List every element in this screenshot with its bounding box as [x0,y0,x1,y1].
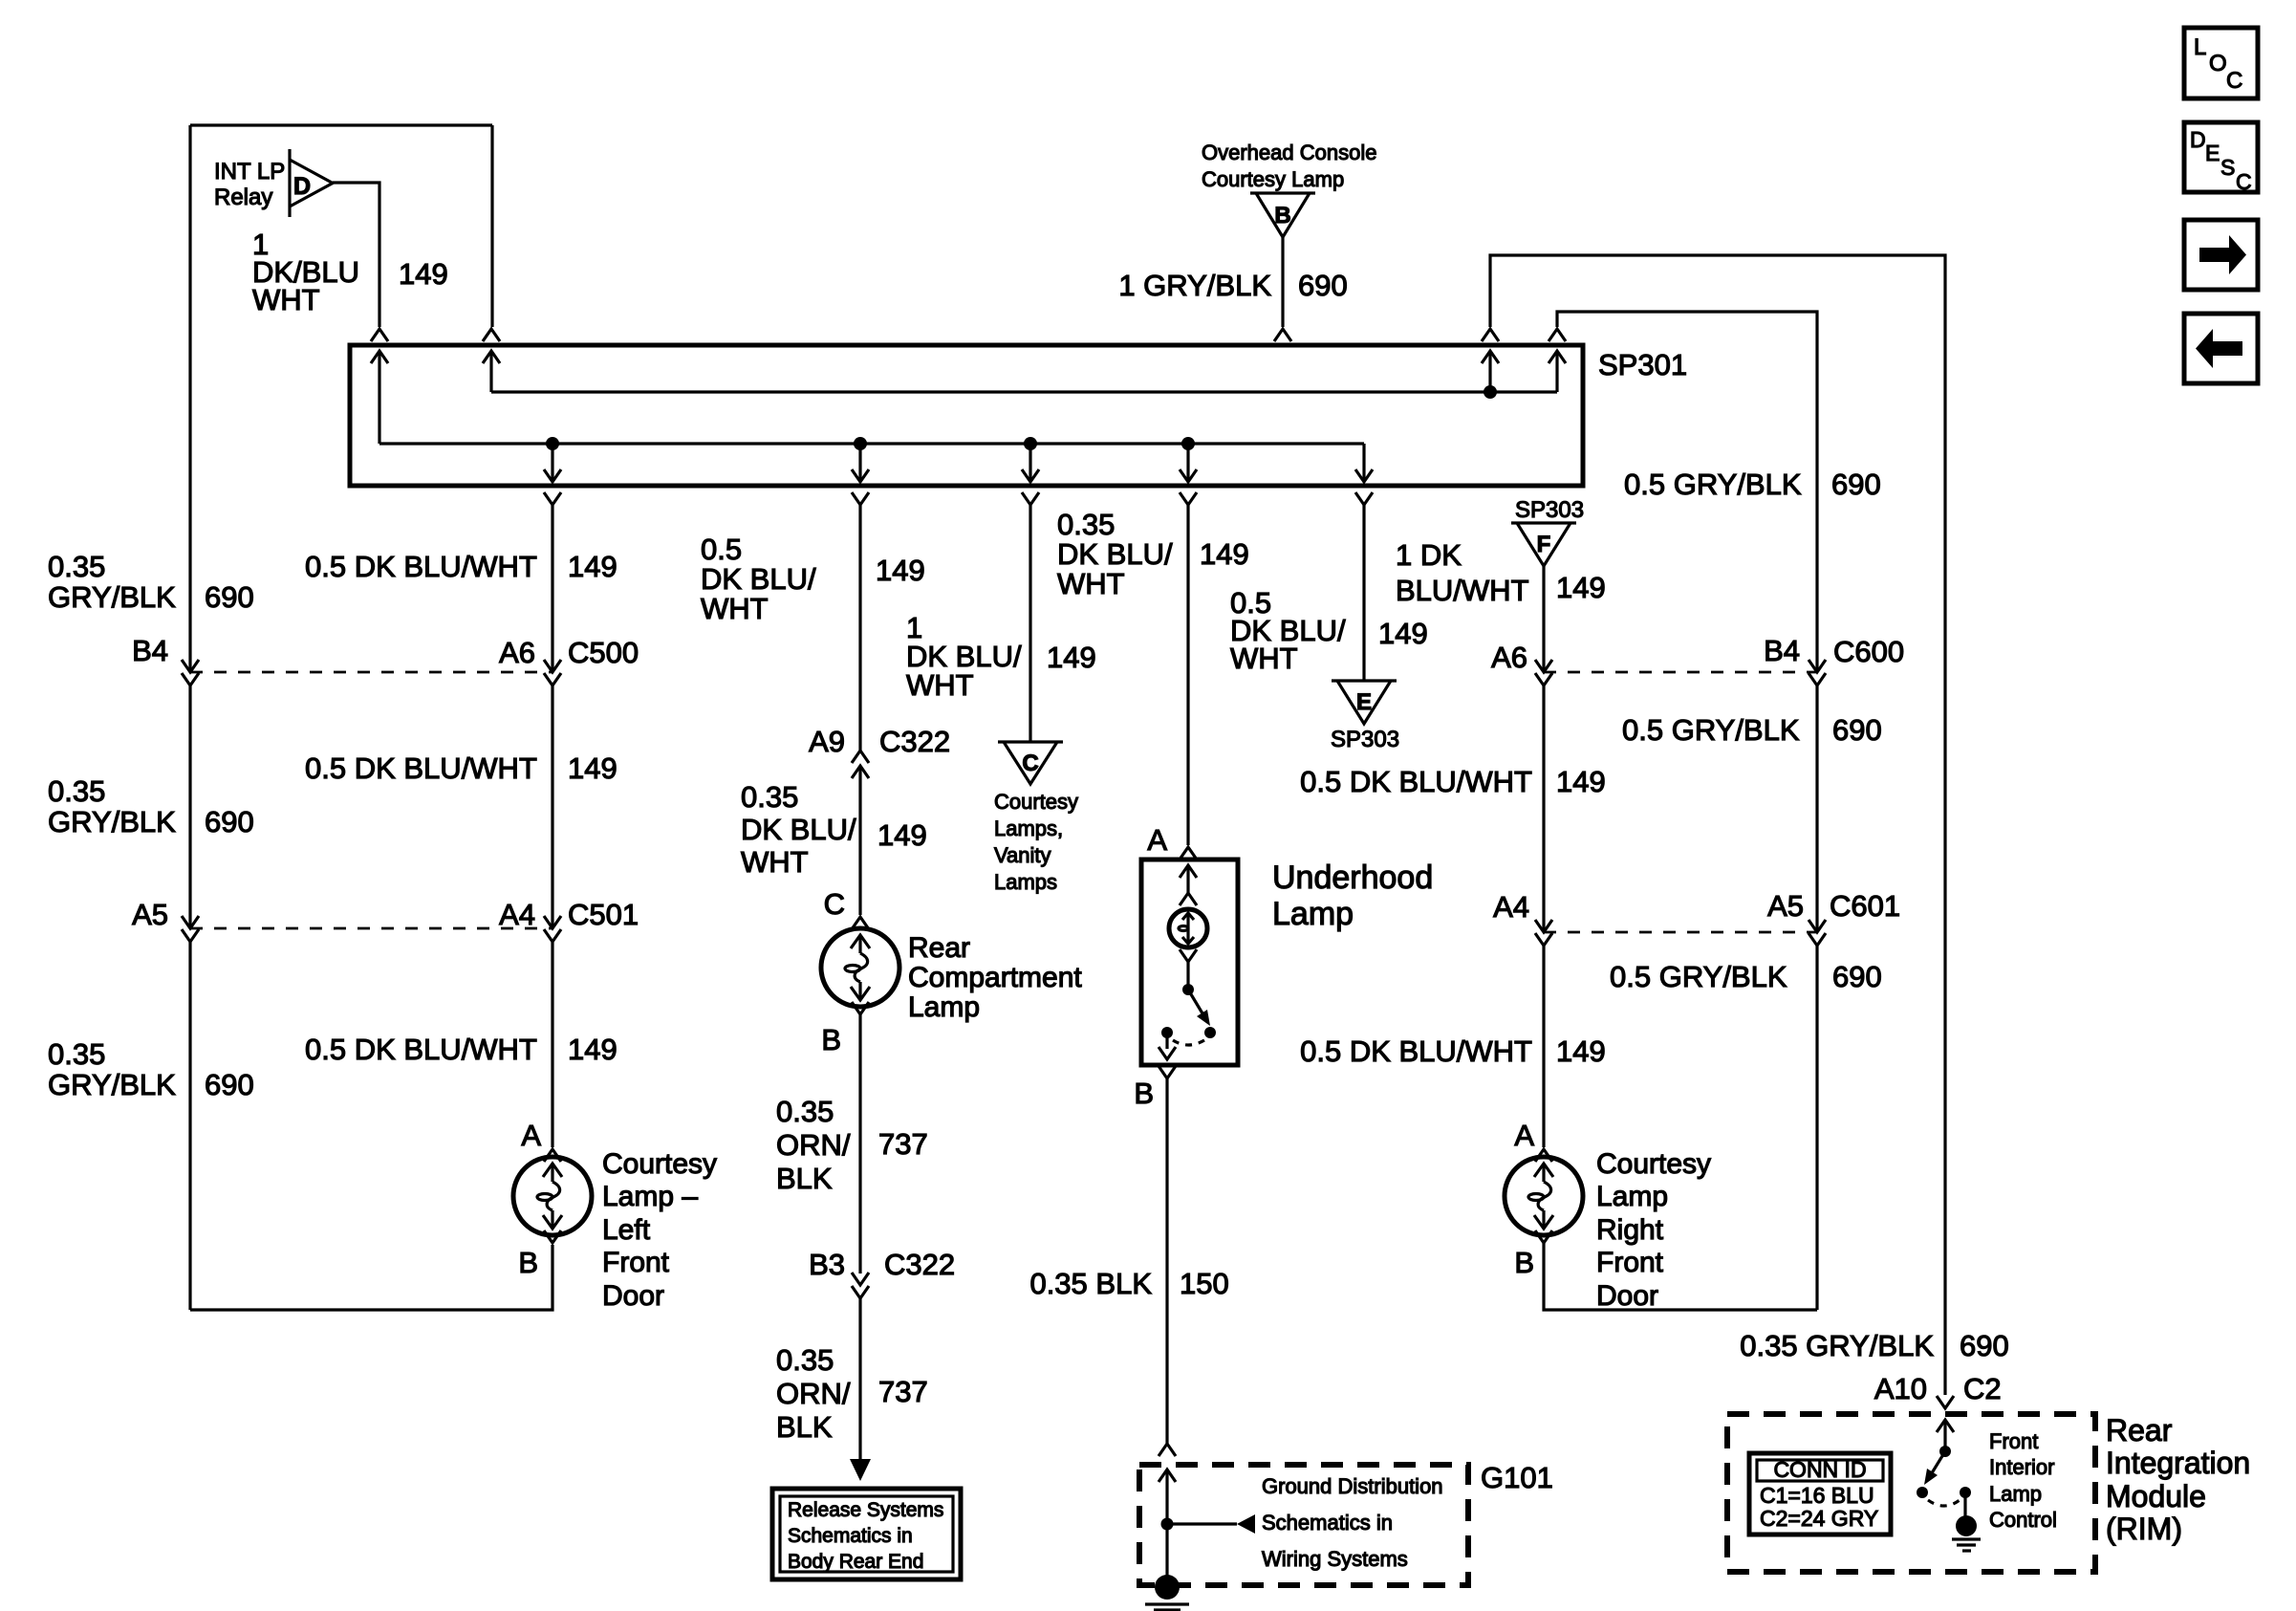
svg-text:E: E [2205,141,2220,165]
underhood internal arrow up [1186,865,1189,893]
junction dot line B x1078 [1024,437,1037,450]
svg-text:Rear: Rear [2106,1413,2173,1448]
svg-text:A10: A10 [1874,1372,1927,1405]
SP301 internal arrow down at x1243 [1186,444,1189,481]
SP301 internal bus line B [379,442,1364,445]
G101 junction dot [1161,1518,1174,1531]
svg-text:B: B [821,1023,841,1056]
svg-text:149: 149 [568,1033,617,1066]
svg-text:F: F [1537,532,1551,557]
svg-text:Vanity: Vanity [994,843,1051,867]
chevron below SP301 x1078 [1022,492,1039,505]
svg-text:Lamp: Lamp [1272,896,1354,932]
svg-text:A9: A9 [809,725,845,758]
svg-text:0.5 DK BLU/WHT: 0.5 DK BLU/WHT [1300,765,1532,798]
svg-text:149: 149 [1556,571,1606,604]
connector arrow at A6 (C600) [1535,660,1552,672]
svg-text:A4: A4 [1493,890,1529,924]
svg-text:0.35: 0.35 [48,550,105,583]
connector C322 arrows (down) [852,1273,869,1285]
wire frame right vertical into SP301 [490,125,493,327]
svg-text:C501: C501 [568,898,639,931]
svg-text:149: 149 [568,751,617,785]
svg-text:WHT: WHT [1057,567,1125,600]
chevron at SP301 top edge (frame wire) [483,329,500,341]
SP301 internal arrow up at x1629 [1555,351,1558,392]
svg-text:B4: B4 [1764,634,1800,667]
SP301 internal bus line A [491,390,1557,393]
svg-text:149: 149 [1047,641,1096,674]
svg-text:149: 149 [1556,765,1606,798]
wire GRY/BLK below C601 (x1901) [1815,946,1818,1310]
svg-text:149: 149 [568,550,617,583]
svg-text:CONN ID: CONN ID [1773,1457,1866,1482]
svg-text:Rear: Rear [908,932,970,964]
connector C501 dashed line [190,927,552,930]
splice triangle F (SP303) [1511,523,1576,566]
svg-text:0.35: 0.35 [1057,508,1115,541]
ground symbol G101 [1155,1575,1180,1600]
junction dot line B x578 [546,437,559,450]
svg-text:WHT: WHT [701,592,769,625]
RIM switch travel arc (dashed) [1928,1500,1960,1506]
svg-text:Lamp: Lamp [908,991,980,1023]
svg-text:Lamps: Lamps [994,870,1057,894]
splice pack SP301 busbar outline [350,345,1583,486]
svg-text:ORN/: ORN/ [776,1128,851,1162]
right arrow box [2184,220,2258,290]
svg-text:737: 737 [878,1127,928,1161]
RIM internal arrow up [1943,1420,1946,1451]
svg-text:BLK: BLK [776,1410,833,1444]
svg-text:WHT: WHT [252,283,320,316]
svg-text:A4: A4 [499,898,535,931]
svg-text:GRY/BLK: GRY/BLK [48,1068,176,1101]
svg-text:690: 690 [1960,1329,2009,1362]
svg-text:C601: C601 [1830,889,1900,923]
splice triangle E (SP303) [1332,681,1397,724]
svg-text:Front: Front [602,1247,670,1278]
svg-text:149: 149 [1378,617,1428,650]
wire loop to far right column (to RIM) [1490,255,1945,1395]
svg-text:L: L [2194,34,2206,60]
chevron at G101 box edge [1159,1444,1176,1456]
chevron at SP301 top edge x1629 [1549,329,1566,341]
svg-text:Overhead Console: Overhead Console [1202,141,1376,164]
connector arrow at B4 (C500) [182,660,199,672]
svg-text:690: 690 [205,1068,254,1101]
connector arrow at A4 (C601) [1535,920,1552,932]
svg-text:SP303: SP303 [1515,497,1584,523]
chevron at RIM box edge (A10/C2) [1937,1396,1954,1408]
bulb inside underhood lamp [1169,909,1207,947]
wire ORN/BLK to release systems [858,1298,861,1463]
svg-text:0.35: 0.35 [48,774,105,808]
chevron at underhood lamp terminal A [1180,847,1197,860]
svg-text:Wiring Systems: Wiring Systems [1262,1547,1408,1571]
svg-text:0.35: 0.35 [741,780,798,814]
svg-text:D: D [2190,127,2206,152]
chevron at SP301 top edge x1559 [1482,329,1499,341]
chevron below SP301 x900 [852,492,869,505]
chevron at SP301 top edge (B wire) [1274,329,1291,341]
svg-text:690: 690 [205,805,254,838]
SP301 internal arrow down at x900 [858,444,861,481]
wire DK BLU/WHT to splice SP303 triangle E [1362,505,1365,681]
wire left tall vertical GRY/BLK 690 [188,125,191,672]
svg-text:S: S [2220,155,2235,180]
svg-text:Lamp: Lamp [1596,1181,1668,1212]
svg-text:C: C [1022,751,1038,776]
svg-text:BLU/WHT: BLU/WHT [1396,574,1529,607]
svg-text:Module: Module [2106,1479,2206,1513]
connector triangle D (INT LP Relay) [290,149,333,217]
svg-text:A5: A5 [1767,889,1804,923]
svg-text:149: 149 [1200,537,1249,571]
svg-text:BLK: BLK [776,1162,833,1195]
svg-text:A: A [521,1119,541,1152]
svg-text:Door: Door [1596,1280,1658,1312]
SP301 internal arrow down at x578 [551,444,553,481]
connector arrow at B4 (C600) [1809,660,1826,672]
wire DK BLU/WHT below C601 to right lamp [1542,946,1545,1147]
svg-text:0.35 GRY/BLK: 0.35 GRY/BLK [1740,1329,1934,1362]
SP301 internal arrow down at x1078 [1029,444,1031,481]
underhood switch travel arc (dashed) [1173,1040,1204,1045]
svg-text:G101: G101 [1481,1461,1553,1494]
svg-text:0.5 GRY/BLK: 0.5 GRY/BLK [1624,468,1802,501]
G101 branch wire with left arrowhead [1167,1522,1237,1525]
SP301 internal arrow down at x1427 [1362,444,1365,481]
wire left frame top horizontal [190,123,492,126]
svg-text:Body Rear End: Body Rear End [788,1551,923,1573]
svg-text:Underhood: Underhood [1272,860,1433,896]
wire DK BLU/WHT between C600 and C601 (col F) [1542,686,1545,932]
svg-text:Courtesy Lamp: Courtesy Lamp [1202,167,1344,191]
underhood switch contact dots [1161,1027,1173,1038]
wire between C500 and C501 [551,686,553,928]
svg-text:Lamps,: Lamps, [994,816,1063,840]
svg-text:DK BLU/: DK BLU/ [741,813,856,846]
box Release Systems Schematics in Body Rear End [772,1489,961,1579]
svg-text:Lamp: Lamp [1989,1482,2042,1506]
wire C322 to lamp C [858,766,861,915]
svg-text:Compartment: Compartment [908,962,1082,993]
svg-text:Left: Left [602,1214,651,1246]
svg-text:149: 149 [399,257,448,291]
svg-text:Control: Control [1989,1508,2057,1532]
underhood internal chevron below bulb [1180,949,1197,962]
svg-text:Ground Distribution: Ground Distribution [1262,1474,1443,1498]
svg-text:C1=16 BLU: C1=16 BLU [1760,1483,1874,1508]
svg-text:E: E [1356,689,1372,715]
svg-text:0.35: 0.35 [776,1095,834,1128]
connector triangle B (Overhead Console Courtesy Lamp) [1250,193,1315,237]
svg-text:0.5 DK BLU/WHT: 0.5 DK BLU/WHT [305,550,537,583]
RIM switch pivot dot [1939,1446,1951,1457]
loc box (top right) [2184,28,2258,98]
svg-text:149: 149 [877,818,927,852]
svg-text:0.35 BLK: 0.35 BLK [1029,1267,1152,1300]
module Rear Integration Module dashed box [1727,1414,2095,1572]
SP301 internal arrow up at x1559 [1488,351,1491,392]
svg-text:0.35: 0.35 [48,1037,105,1071]
wire from triangle B to SP301 [1281,237,1284,327]
svg-text:Interior: Interior [1989,1455,2054,1479]
svg-text:150: 150 [1180,1267,1229,1300]
chevron at right lamp terminal A [1535,1149,1552,1162]
svg-text:C2=24 GRY: C2=24 GRY [1760,1506,1878,1531]
lamp Courtesy Lamp Left Front Door [513,1157,592,1235]
svg-text:Release Systems: Release Systems [788,1499,943,1521]
svg-text:1 DK: 1 DK [1396,538,1462,572]
wire GRY/BLK between C600 and C601 (x1901) [1815,686,1818,932]
svg-text:690: 690 [1832,713,1882,747]
svg-text:INT LP: INT LP [214,159,285,185]
underhood internal chevron [1180,893,1197,905]
svg-text:0.5 DK BLU/WHT: 0.5 DK BLU/WHT [305,751,537,785]
wire DK BLU/WHT column to left courtesy lamp [551,505,553,672]
svg-text:A: A [1147,823,1167,857]
svg-text:Relay: Relay [214,185,272,210]
wire DK BLU/WHT to underhood lamp [1186,505,1189,845]
svg-text:Integration: Integration [2106,1446,2250,1480]
svg-text:690: 690 [1832,960,1882,993]
svg-text:B: B [1514,1246,1534,1279]
chevron at lamp terminal B [544,1230,561,1243]
connector arrow at A4 (C501) [544,916,561,928]
chevron at lamp terminal C [852,917,869,929]
svg-text:C322: C322 [884,1248,955,1281]
svg-text:WHT: WHT [741,845,809,879]
svg-text:0.5 GRY/BLK: 0.5 GRY/BLK [1622,713,1800,747]
chevron at lamp terminal A [544,1149,561,1162]
underhood switch feed line [1186,962,1189,990]
connector C500 dashed line [190,671,552,674]
svg-text:C: C [824,887,845,921]
ground block G101 dashed box [1139,1465,1468,1585]
svg-text:Schematics in: Schematics in [788,1525,913,1547]
svg-text:690: 690 [1831,468,1881,501]
SP301 internal arrow up at x397 [378,351,380,444]
svg-text:O: O [2209,51,2227,76]
chevron at SP301 top edge (D wire) [371,329,388,341]
wire DK BLU/WHT to triangle C [1029,505,1031,742]
svg-text:737: 737 [878,1375,928,1408]
junction dot line B x1243 [1181,437,1195,450]
svg-text:Lamp –: Lamp – [602,1181,698,1212]
connector arrow at A5 (C601) [1809,920,1826,932]
wire BLK 150 to G101 [1165,1078,1168,1444]
svg-text:149: 149 [876,554,925,587]
wire bottom return to courtesy lamp B [190,1245,552,1310]
svg-text:SP301: SP301 [1598,348,1687,381]
wire below C501 to lamp A [551,942,553,1147]
wire loop to right column x1901 [1557,312,1817,672]
svg-text:Courtesy: Courtesy [1596,1148,1711,1180]
svg-text:Front: Front [1989,1429,2038,1453]
svg-text:Courtesy: Courtesy [602,1148,717,1180]
svg-text:DK BLU/: DK BLU/ [1057,537,1173,571]
svg-text:A: A [1514,1119,1534,1152]
svg-text:C322: C322 [879,725,950,758]
switch-lamp Underhood Lamp box [1141,860,1238,1065]
junction dot line B x900 [854,437,867,450]
connector C600 dashed line [1544,671,1817,674]
svg-text:B: B [1274,203,1290,229]
svg-text:SP303: SP303 [1331,727,1399,752]
lamp Courtesy Lamp Right Front Door [1505,1157,1583,1235]
svg-text:(RIM): (RIM) [2106,1512,2182,1546]
svg-text:0.5 DK BLU/WHT: 0.5 DK BLU/WHT [1300,1034,1532,1068]
svg-text:0.35: 0.35 [776,1343,834,1377]
svg-text:GRY/BLK: GRY/BLK [48,805,176,838]
connector arrow at A6 (C500) [544,660,561,672]
chevron at underhood lamp terminal B [1159,1066,1176,1078]
underhood switch pivot dot [1182,984,1194,995]
connector triangle C (Courtesy Lamps, Vanity Lamps) [998,742,1063,784]
svg-text:1 GRY/BLK: 1 GRY/BLK [1118,269,1271,302]
svg-text:690: 690 [1298,269,1348,302]
svg-text:ORN/: ORN/ [776,1377,851,1410]
svg-text:Right: Right [1596,1214,1664,1246]
svg-text:WHT: WHT [1230,642,1298,675]
svg-text:Courtesy: Courtesy [994,790,1078,814]
wire GRY/BLK below C501 [188,942,191,1310]
left arrow box [2184,314,2258,383]
svg-text:WHT: WHT [906,668,974,702]
chevron below SP301 x1427 [1355,492,1373,505]
connector C601 dashed line [1544,931,1817,934]
svg-text:DK BLU/: DK BLU/ [701,562,816,596]
desc box [2184,122,2258,192]
svg-text:Front: Front [1596,1247,1664,1278]
chevron below SP301 x578 [544,492,561,505]
svg-text:A6: A6 [499,636,535,669]
svg-text:690: 690 [205,580,254,614]
RIM ground stem [1963,1492,1966,1518]
wire ORN/BLK to C322 [858,1014,861,1274]
ground symbol inside RIM [1956,1515,1977,1536]
svg-text:B3: B3 [809,1248,845,1281]
chevron at lamp terminal B (rear compartment) [852,1002,869,1014]
wire DK BLU/WHT column to rear compartment lamp [858,505,861,752]
svg-text:0.5: 0.5 [701,533,742,566]
RIM switch contact dots [1917,1487,1928,1498]
ground G101 wire to ground symbol [1165,1524,1168,1582]
underhood internal arrow down to B [1165,1033,1168,1049]
wire right lamp B return loop [1544,1243,1817,1310]
svg-text:Schematics in: Schematics in [1262,1511,1393,1535]
lamp Rear Compartment Lamp [821,928,899,1007]
svg-text:0.5 GRY/BLK: 0.5 GRY/BLK [1610,960,1787,993]
SP301 internal arrow up at x514 [489,351,492,392]
svg-text:A5: A5 [132,898,168,931]
junction dot on line A at x1559 [1484,385,1497,399]
solid arrowhead into release systems box [850,1459,871,1481]
connector C322 arrows (up) [852,751,869,763]
svg-text:C: C [2226,68,2242,94]
svg-text:GRY/BLK: GRY/BLK [48,580,176,614]
wire from F to C600 [1542,566,1545,672]
chevron below SP301 x1243 [1180,492,1197,505]
underhood switch arm with arrowhead [1188,990,1205,1018]
svg-text:B: B [1134,1077,1154,1110]
svg-text:149: 149 [1556,1034,1606,1068]
svg-text:C500: C500 [568,636,639,669]
svg-text:A6: A6 [1491,641,1527,674]
wire GRY/BLK between C500 and C501 [188,686,191,928]
svg-text:D: D [293,173,311,200]
svg-text:B: B [518,1246,538,1279]
svg-text:0.5 DK BLU/WHT: 0.5 DK BLU/WHT [305,1033,537,1066]
chevron at right lamp terminal B [1535,1230,1552,1243]
svg-text:C: C [2236,169,2252,194]
svg-text:C600: C600 [1833,635,1904,668]
svg-text:Door: Door [602,1280,664,1312]
connector arrow at A5 (C501) [182,916,199,928]
wire from relay D to splice pack SP301 [333,183,379,327]
svg-text:B4: B4 [132,634,168,667]
RIM switch arm with arrowhead [1930,1451,1945,1476]
table CONN ID box [1749,1453,1891,1535]
svg-text:C2: C2 [1963,1372,2002,1405]
G101 internal arrow up [1165,1469,1168,1524]
